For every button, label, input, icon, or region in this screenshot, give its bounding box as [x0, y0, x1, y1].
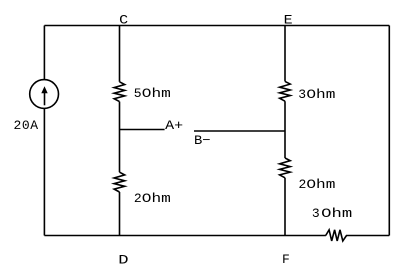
- wire bottom (left corner through D and F to resistor R5): [44, 235, 326, 237]
- svg-text:Ohm: Ohm: [142, 86, 171, 101]
- wire branch E lower (R4 to bottom wire at F): [284, 178, 286, 236]
- svg-text:2: 2: [299, 177, 307, 192]
- svg-text:D: D: [118, 252, 129, 267]
- wire branch C middle (R1 to R2 through node A): [119, 102, 121, 173]
- svg-text:A+: A+: [165, 118, 183, 133]
- wire bottom right (R5 to right corner): [346, 235, 389, 237]
- wire right (top corner to bottom corner): [388, 26, 390, 236]
- svg-text:Ohm: Ohm: [321, 206, 352, 221]
- svg-text:Ohm: Ohm: [306, 177, 335, 192]
- svg-text:3: 3: [298, 87, 306, 102]
- node B stub wire: [194, 130, 285, 132]
- wire left lower (current source to bottom corner): [43, 109, 45, 236]
- svg-text:20A: 20A: [14, 118, 39, 133]
- current source I1 (circle with up arrow): [30, 80, 59, 109]
- node A stub wire: [120, 129, 165, 131]
- wire top (left corner to right corner): [44, 25, 389, 27]
- svg-text:5: 5: [134, 86, 142, 101]
- wire branch C upper (top wire to R1): [119, 26, 121, 82]
- svg-text:Ohm: Ohm: [306, 87, 335, 102]
- resistor R4 2 Ohm (right): [280, 158, 291, 178]
- svg-text:Ohm: Ohm: [142, 191, 171, 206]
- svg-text:2: 2: [134, 191, 142, 206]
- svg-text:B−: B−: [194, 133, 211, 148]
- resistor R2 2 Ohm (left): [114, 172, 125, 192]
- resistor R5 3 Ohm (bottom horizontal): [326, 230, 347, 241]
- wire left upper (top corner to current source): [43, 26, 45, 80]
- svg-text:F: F: [282, 252, 290, 267]
- wire branch E upper (top wire to R3): [284, 26, 286, 82]
- resistor R3 3 Ohm (right top): [280, 81, 291, 101]
- wire branch E middle (R3 to R4 through node B): [284, 101, 286, 158]
- svg-text:3: 3: [312, 206, 320, 221]
- wire branch C lower (R2 to bottom wire at D): [119, 192, 121, 236]
- svg-text:C: C: [119, 13, 128, 28]
- svg-text:E: E: [284, 12, 293, 27]
- resistor R1 5 Ohm: [114, 82, 125, 102]
